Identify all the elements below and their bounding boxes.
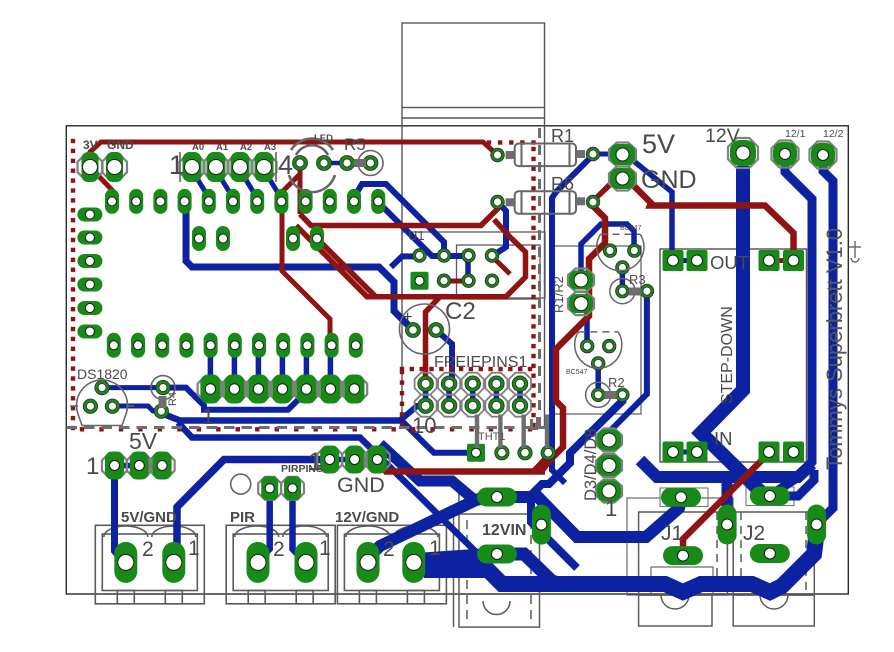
svg-text:D3/D4/D8: D3/D4/D8 [582,429,600,501]
wire blue 2nd-row to big-row columns [208,352,214,382]
svg-text:C2: C2 [445,298,476,325]
capacitor C2 silk [400,304,450,354]
shield keepout dotted bottom [80,427,84,431]
wire blue C2 to FREIEPINS [436,330,452,384]
wire blue row to U1 a [353,184,444,255]
FREIEPINS1 pads [420,378,432,390]
pirpins circle [231,474,251,494]
conn PIR pads [247,542,270,583]
svg-text:GND: GND [107,138,134,152]
dashed line vertical [538,128,541,429]
top pin row [105,189,119,214]
connector X3 PIR outline [226,525,335,604]
wire blue 5V header bus [115,463,163,469]
svg-text:1: 1 [605,496,617,521]
resistor R4 pads [157,382,168,393]
wire blue R1 right to 5V pad [593,152,622,157]
svg-text:A2: A2 [240,142,252,153]
svg-text:12V: 12V [705,125,740,147]
header A0-A3 pads [180,155,205,180]
wire blue R1 pad down left rail [552,156,592,483]
freiepins dotted left [400,370,404,374]
wire red LED chain [282,174,330,343]
svg-text:1: 1 [429,537,441,560]
pad 12V [728,138,758,168]
svg-text:IN: IN [714,428,733,449]
svg-text:GND: GND [641,166,697,194]
resistor R3 pads [617,286,628,297]
right oval pad [807,505,826,545]
wire blue 5V pad to OUT [630,158,672,252]
2nd pin row [107,333,121,358]
wire blue R6 to U1 [492,202,506,256]
wire red U1 pad4 diag [492,256,510,274]
DC jack 12VIN outline [452,494,540,627]
wire red bottom bus [377,461,545,472]
OUT pads [663,250,684,271]
svg-text:2: 2 [273,538,285,561]
pad 12/2 [810,142,837,169]
wire blue right horizontal band [640,460,812,477]
left pin column [77,208,102,222]
svg-text:BC547: BC547 [620,225,642,232]
wire blue DS1820 to R4 bottom [112,406,161,411]
LED silk circle [289,139,335,193]
J1 pads [661,488,701,507]
wire blue PIRPINS pin1 down [258,492,270,562]
svg-text:STEP-DOWN: STEP-DOWN [719,306,736,404]
svg-text:10: 10 [412,413,436,438]
wire blue DS1820 to R4 top [102,385,163,390]
svg-text:3V: 3V [83,138,98,152]
svg-text:4: 4 [278,150,293,180]
svg-text:12V/GND: 12V/GND [335,509,399,526]
resistor R6 pads [492,197,503,208]
D3/D4/D8 header pads [596,429,622,452]
pad 12/1 [772,141,799,168]
svg-text:A1: A1 [216,142,229,153]
connector X4 12V/GND outline [337,525,446,604]
wire blue Q1 emitter to R3 [620,268,626,292]
wire blue band B [512,497,681,537]
wire blue 12/1 power [772,162,812,494]
wire blue stub to mid oval pad [722,478,733,514]
FREIEPINS1 silk [415,373,437,395]
wire red U1 row2 stub [444,279,468,284]
shield keepout dotted top right [487,140,491,144]
wire blue OUT pads link [673,258,697,263]
wire red mid column [541,205,605,472]
svg-text:1: 1 [86,453,99,480]
svg-text:1: 1 [169,150,184,180]
step-down module outline U2 [660,249,807,462]
dimension mark [849,241,861,262]
wire red OUT pads link [769,258,794,263]
wire blue IN pads link [673,450,697,455]
svg-text:5V: 5V [129,428,158,454]
wire red 3V to row pad [90,167,112,199]
svg-text:R1: R1 [551,126,574,146]
svg-text:12VIN: 12VIN [482,522,526,539]
wire blue 12V/GND pad1 band [416,556,490,561]
wire red LED pad down [298,167,303,214]
svg-text:A3: A3 [264,142,276,153]
DS1820 silk [70,380,134,426]
wire blue A0 to row [192,170,209,198]
wire blue lineA to THT pad [402,421,470,453]
resistor R5 pads [341,157,353,169]
PIRPINS pads [258,477,281,500]
header A0-A3 silk [180,152,276,182]
resistor R3 silk [610,279,635,304]
pad GND top [102,155,127,180]
wire blue Q2 to R2 [595,363,601,394]
wire blue stub U1 pin1 [391,256,420,267]
wire blue PIRPINS pin2 down [293,492,307,562]
wire blue BC547 Q1 to R1/R2 [581,224,634,280]
svg-text:PIR: PIR [230,509,255,526]
svg-text:OUT: OUT [710,252,749,273]
relay J1 outline [627,498,733,626]
wire red loop to FREIEPINS [426,297,441,384]
svg-text:R4: R4 [167,392,179,406]
DS1820 pads [96,382,107,393]
svg-text:R1/R2: R1/R2 [551,276,566,313]
wire blue lineA to FREIEPINS pin [400,406,426,421]
transistor Q2 silk [575,332,622,368]
resistor R1 pads [492,150,503,161]
wire blue row to U1 b [377,201,468,256]
board outline [66,126,848,594]
THT resistor bars [475,415,549,449]
IN pads [663,442,684,463]
svg-text:GND: GND [337,473,385,497]
svg-text:R2: R2 [608,375,625,390]
resistor R6 silk [506,191,585,214]
IC U1 outline [402,232,545,299]
mid oval pad [718,505,737,545]
wire red top rail [90,142,498,167]
svg-text:R5: R5 [344,135,366,154]
svg-text:LED: LED [314,133,333,144]
transistor Q2 pads [582,341,593,352]
wire blue 12V pad power [701,166,768,499]
resistor R5 silk [358,151,383,176]
J2 pads [750,487,790,506]
svg-text:2: 2 [383,538,395,561]
wire blue GND header to conn pin1 [174,460,330,561]
wire blue row pad to C2 [186,203,413,330]
svg-text:12/2: 12/2 [823,128,844,140]
svg-text:1: 1 [188,537,200,560]
svg-text:12/1: 12/1 [785,128,806,140]
wire blue U1 pad3 col [465,256,471,281]
wire blue band A [380,444,478,503]
svg-text:R6: R6 [551,174,574,194]
svg-text:U1: U1 [408,228,425,243]
svg-text:THT1: THT1 [478,431,506,443]
wire red U1 loop [296,220,526,297]
svg-text:BC547: BC547 [566,369,588,376]
svg-text:2: 2 [142,538,154,561]
wire red J1 to IN [683,453,769,553]
header GND pads [317,447,342,472]
wire blue R2 staircase down [531,395,622,568]
resistor R2 pads [593,389,604,400]
svg-text:1: 1 [319,537,331,560]
resistor R1 silk [506,144,585,167]
wire blue A3 to row [264,170,281,198]
svg-text:1: 1 [202,404,214,429]
J pads outline boxes [660,487,794,507]
svg-text:DS1820: DS1820 [77,366,128,382]
wire blue bottom monster bus [424,528,816,592]
capacitor C2 pads [407,324,419,336]
relay area outline [553,246,641,414]
12VIN pads [477,488,517,507]
wire blue bus lineB to 12VIN [178,423,490,555]
pad GND right [609,167,636,191]
svg-text:5V: 5V [642,129,675,159]
THT header pads [467,444,485,462]
wire red spare pad diag [317,239,376,298]
big header row [198,376,224,402]
spare pads a [192,226,206,251]
header 5V pads [102,453,127,478]
svg-text:J2: J2 [743,522,765,545]
spare pads b [286,226,300,251]
shield keepout dotted right [531,147,535,151]
svg-text:J1: J1 [661,522,683,545]
conn 5V/GND pads [114,542,137,583]
pad 3V [78,155,103,180]
wire red GND staircase to OUT [634,186,794,252]
transistor Q1 silk [597,234,644,270]
wire blue bus lineA [162,411,402,421]
wire red bus mid [300,203,498,226]
svg-text:FREIEPINS1: FREIEPINS1 [434,354,527,371]
wire blue R1/R2 pad2 to Q2 [581,304,587,346]
svg-text:5V/GND: 5V/GND [121,509,177,526]
wire blue 12VIN bottom right [497,554,562,584]
USB connector X1 outline [402,23,545,429]
wire blue R3 to D3 header [609,291,647,440]
wire blue 12/2 power [820,162,833,521]
wire blue 5V header to conn pin2 [115,468,127,562]
svg-text:PIRPINS: PIRPINS [281,463,323,475]
conn 12V/GND pads [357,542,380,583]
freiepins dotted top [400,367,404,371]
resistor R4 silk [151,376,175,400]
wire blue R4 to big row [163,388,305,410]
LED pads [294,157,306,169]
wire red R6 to GND pad [592,184,611,202]
resistor R2 silk [586,382,611,407]
svg-text:+: + [403,309,412,326]
wire blue LED-R5 link [324,161,347,166]
svg-text:R3: R3 [629,272,646,287]
wire blue J2 top pad right [772,470,814,496]
transistor Q1 pads [605,245,616,256]
wire red THT pad4 link [533,455,548,472]
svg-text:Tommys Superbrett V1.0: Tommys Superbrett V1.0 [822,228,847,470]
pad 5V [609,143,636,167]
wire blue R6 right to GND pad [592,178,622,202]
IC U1 pads [414,250,425,261]
shield keepout dotted left [71,139,75,143]
relay J2 outline [733,512,814,626]
connector X2 5V/GND outline [95,525,204,604]
pads R1/R2 [568,269,594,292]
wire blue GND header bus [330,457,378,463]
wire blue FREIEPINS columns [423,384,429,406]
dashed line horizontal [67,426,546,429]
wire blue P1 12V/GND pad2 to 12VIN [368,497,490,558]
wire blue A1 to row [216,170,233,198]
svg-text:A0: A0 [192,142,204,153]
wire blue A2 to row [240,170,257,198]
